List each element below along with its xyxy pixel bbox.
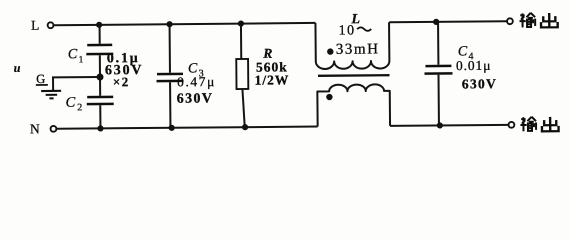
wire bottom rail right (choke to output) (390, 125, 508, 126)
junction top C4 (433, 19, 439, 25)
svg-text:2: 2 (77, 102, 82, 113)
svg-text:G: G (36, 72, 45, 86)
label chu (output) bottom: char 出 (542, 117, 559, 131)
terminal N (51, 126, 57, 132)
terminal L (48, 22, 54, 28)
junction top C3 (166, 21, 172, 27)
svg-text:×2: ×2 (113, 74, 130, 89)
capacitor C4 (424, 22, 453, 126)
svg-text:C: C (68, 47, 78, 62)
junction bottom C2 (97, 125, 103, 131)
label shu (output) bottom: char 输 (520, 117, 536, 132)
capacitor C3 (156, 24, 184, 128)
wire top rail left (L to choke) (54, 23, 316, 25)
svg-text:33mH: 33mH (336, 41, 380, 57)
junction bottom C3 (169, 125, 175, 131)
junction bottom R (242, 124, 248, 130)
svg-text:u: u (14, 61, 21, 75)
capacitor C2 (87, 77, 114, 129)
resistor R (236, 24, 249, 128)
tilde of 10~ (357, 27, 371, 31)
phase dot top winding (327, 48, 333, 54)
svg-text:0.01μ: 0.01μ (456, 58, 492, 73)
terminal output bottom (509, 122, 515, 128)
wire bottom rail left (N to choke) (57, 127, 318, 129)
wire ground branch (53, 77, 100, 90)
junction top C1 (96, 22, 102, 28)
inductor L bottom winding (317, 84, 390, 126)
junction node (C1/C2/ground) (96, 73, 103, 80)
junction top R (238, 20, 244, 26)
svg-text:1: 1 (79, 55, 84, 65)
label shu (output) top: char 输 (519, 13, 535, 28)
svg-text:10: 10 (339, 23, 356, 38)
svg-text:630V: 630V (462, 76, 497, 91)
junction bottom C4 (437, 122, 443, 128)
core of choke (318, 74, 389, 77)
terminal output top (507, 18, 513, 24)
ground symbol (41, 91, 61, 99)
svg-text:0.47μ: 0.47μ (177, 74, 216, 89)
phase dot bottom winding (326, 94, 332, 100)
capacitor C1 (86, 25, 113, 77)
svg-text:N: N (30, 121, 40, 136)
svg-text:C: C (65, 95, 75, 111)
wire top rail right (choke to output) (389, 21, 507, 22)
svg-text:1/2W: 1/2W (254, 72, 289, 87)
svg-text:630V: 630V (177, 91, 214, 106)
underline of G (36, 84, 48, 86)
svg-text:L: L (31, 18, 39, 33)
label chu (output) top: char 出 (541, 13, 558, 27)
inductor L top winding (315, 22, 389, 69)
